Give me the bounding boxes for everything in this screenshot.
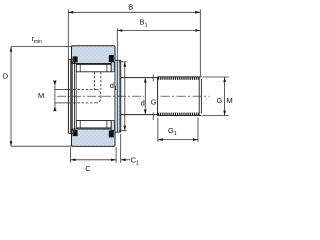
D dimension line (10, 47, 12, 147)
G-M arrow bottom (223, 111, 226, 116)
thread start line (157, 77, 159, 116)
G1 extension right (197, 118, 199, 142)
B1 arrow left (117, 29, 122, 32)
G-M extension top (203, 76, 229, 78)
M extension bottom stub (55, 102, 68, 104)
flange right line (75, 72, 77, 120)
C1 extension (120, 134, 122, 163)
M bottom end tick (53, 110, 56, 112)
svg-text:G: G (217, 96, 223, 105)
d1 extension bottom (119, 130, 127, 132)
thread hatch bottom (158, 113, 198, 116)
B1 extension into bearing (116, 28, 118, 60)
D bottom extension line (11, 145, 72, 147)
d arrow bottom (points down) (144, 110, 147, 115)
d1 arrow bottom (124, 126, 127, 131)
seal bottom-right (109, 130, 114, 137)
stud shank top edge (121, 77, 158, 79)
B1 arrow right (195, 29, 200, 32)
C extension left (70, 147, 72, 163)
svg-text:D: D (3, 72, 9, 81)
C arrow right (111, 159, 116, 162)
M arrow top (points down) (54, 82, 57, 86)
B arrow left (68, 11, 73, 14)
stud shank bottom edge (121, 114, 158, 116)
B arrow right (195, 11, 200, 14)
ring left face line (70, 46, 72, 147)
svg-text:d: d (141, 98, 145, 107)
svg-text:B: B (128, 2, 133, 11)
thread hatch top (158, 77, 198, 80)
G-M arrow top (223, 77, 226, 82)
grease hole hidden line 2 (100, 72, 102, 90)
G1 arrow right (193, 138, 198, 141)
D arrow bottom (10, 141, 13, 146)
svg-text:C: C (85, 164, 91, 173)
C1 arrow line (121, 159, 131, 161)
d1 extension top (119, 61, 127, 63)
M extension top stub (55, 89, 68, 91)
flange line 2 (70, 59, 72, 133)
hex socket end cap (96, 90, 101, 103)
C arrow left (71, 159, 76, 162)
dimension B line (68, 11, 200, 13)
right washer body (115, 60, 120, 132)
seal top-right (109, 55, 114, 62)
thread OD bottom line (158, 115, 202, 117)
svg-text:M: M (38, 91, 44, 100)
M top end tick (53, 80, 56, 82)
G dimension stub top (152, 75, 154, 82)
thread end face line (198, 77, 200, 115)
flange top cap (68, 58, 74, 60)
G1 arrow left (158, 138, 163, 141)
right washer top cap (115, 59, 121, 61)
d arrow top (points up) (144, 78, 147, 83)
flange line 3 (72, 61, 74, 131)
C dimension line (71, 159, 117, 161)
seal bottom-left (73, 130, 78, 136)
B extension left (67, 9, 69, 59)
outer ring right lip bottom (111, 121, 114, 131)
B extension right (199, 9, 201, 77)
right washer left face 2 (116, 60, 118, 132)
G-M dimension line (224, 77, 226, 116)
M dimension vertical line (54, 81, 56, 111)
flange line 4 (74, 59, 76, 133)
thread end chamfer line (200, 79, 202, 113)
stud flange left face (67, 59, 69, 133)
G1 dimension line (158, 139, 198, 141)
outer ring right lip top (111, 62, 114, 72)
right washer bottom cap (115, 131, 121, 133)
thread OD top line (158, 76, 202, 78)
flange bottom cap (68, 132, 74, 134)
d dimension line (144, 78, 146, 115)
dimension B1 line (117, 30, 200, 32)
C extension right (115, 147, 117, 163)
outer ring top band (72, 46, 116, 64)
right washer left face (114, 60, 116, 132)
D arrow top (10, 47, 13, 52)
M arrow bottom (points up) (54, 106, 57, 110)
seal top-left (73, 56, 78, 62)
grease hole hidden line 1 (93, 72, 95, 90)
hex socket hidden bottom line (69, 102, 96, 104)
d1 dimension line (124, 62, 126, 131)
outer ring bottom band (72, 129, 116, 146)
right washer right face (119, 60, 121, 132)
needle roller row bottom (76, 121, 111, 128)
d1 arrow top (124, 62, 127, 67)
svg-text:M: M (227, 96, 233, 105)
G-M extension bottom (203, 115, 229, 117)
G dimension stub bottom (152, 112, 154, 120)
needle end cap lines bottom (79, 121, 81, 128)
svg-text:G: G (151, 98, 157, 107)
r_min / D top extension line (11, 46, 72, 48)
hex socket hidden top line (69, 89, 96, 91)
needle roller row top (76, 64, 111, 71)
C1 arrow (points left) (121, 159, 126, 162)
G1 extension left (157, 118, 159, 142)
axis center line (57, 95, 144, 97)
needle end cap lines top (79, 64, 81, 71)
